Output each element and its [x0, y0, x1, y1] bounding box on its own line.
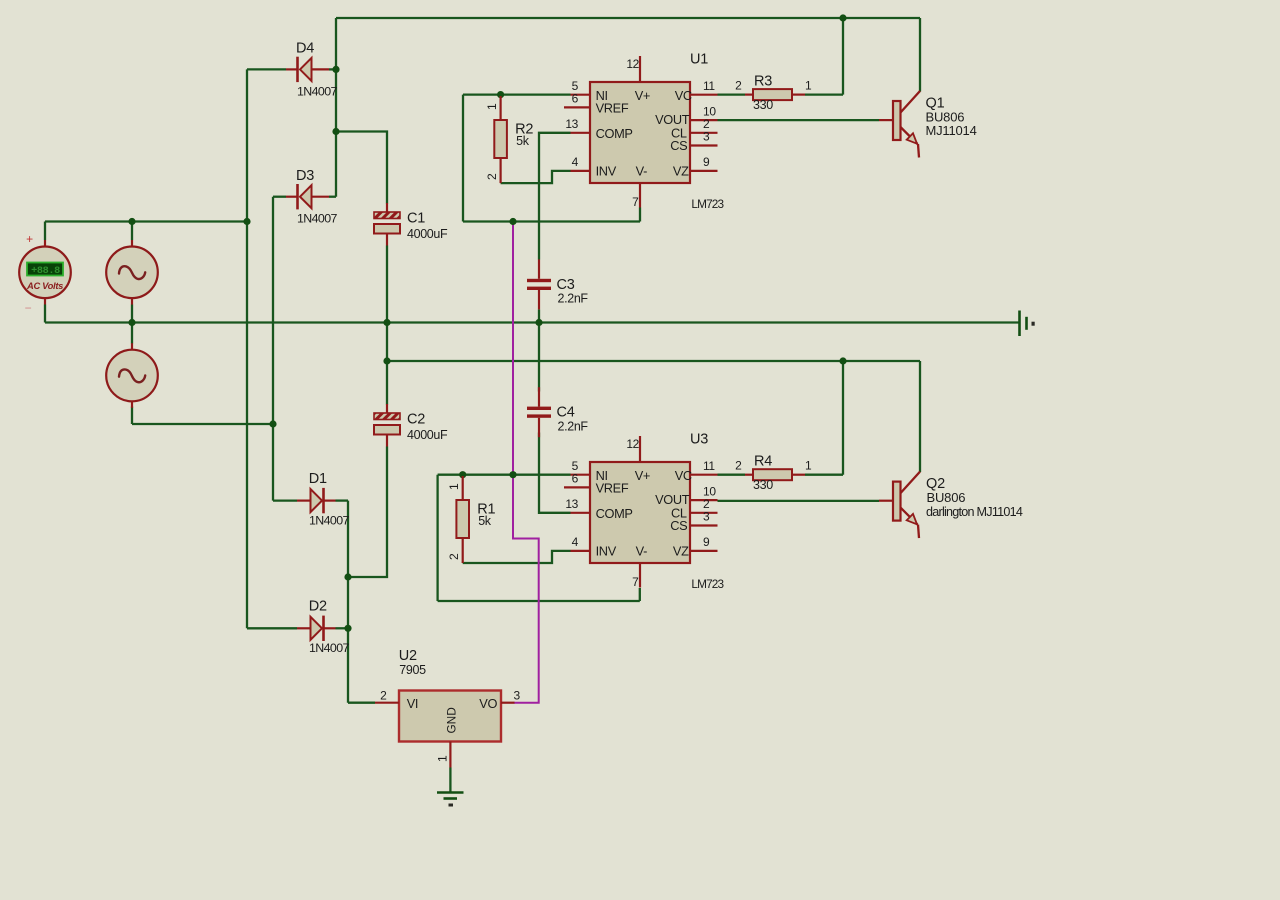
- capacitor C3 2.2nF: [527, 259, 588, 309]
- wire R4 riser to negative rail: [842, 361, 844, 475]
- wire C4 bottom to U3 COMP: [539, 433, 571, 513]
- U3 pin 6 (VREF): [564, 472, 590, 488]
- svg-text:6: 6: [572, 472, 579, 486]
- wire D4 anode lead: [247, 68, 286, 70]
- U2 pin 2 (VI): [375, 689, 399, 703]
- wire U3 NI row: [438, 474, 571, 476]
- wire R4 left lead: [718, 474, 746, 476]
- U1 pin 11 (VC): [690, 79, 718, 95]
- svg-text:BU806: BU806: [927, 490, 966, 505]
- svg-text:+: +: [26, 232, 33, 246]
- svg-text:V+: V+: [635, 88, 650, 103]
- wire C1 bottom to ground rail: [386, 246, 388, 323]
- svg-text:VZ: VZ: [673, 164, 689, 179]
- junction purple net at U3 NI: [509, 471, 516, 478]
- diode D2 1N4007: [297, 599, 350, 656]
- svg-text:2: 2: [485, 173, 499, 180]
- wire U3 V- riser: [639, 588, 641, 601]
- wire R4 right to riser: [805, 474, 843, 476]
- svg-text:2.2nF: 2.2nF: [558, 420, 589, 434]
- svg-text:2: 2: [380, 689, 387, 703]
- junction C2 bottom at cathode bus: [344, 573, 351, 580]
- svg-text:GND: GND: [445, 707, 459, 733]
- ground symbol right (power ground): [1020, 311, 1035, 337]
- wire AC2 bottom riser: [131, 407, 133, 425]
- capacitor C1 4000uF: [374, 203, 448, 246]
- svg-text:U3: U3: [690, 431, 708, 447]
- svg-text:U2: U2: [399, 648, 417, 664]
- U3 pin 11 (VC): [690, 459, 718, 475]
- svg-text:2: 2: [447, 553, 461, 560]
- svg-text:12: 12: [626, 57, 639, 71]
- U1 pin 10 (VOUT): [690, 104, 718, 120]
- wire voltmeter/AC1 top rail y=221.5: [45, 220, 247, 222]
- wire voltmeter minus riser: [44, 305, 46, 323]
- wire AC2 to D1/D3 bus y=424: [132, 423, 273, 425]
- svg-text:1N4007: 1N4007: [309, 514, 350, 528]
- wire AC1 top riser: [131, 222, 133, 241]
- svg-text:VZ: VZ: [673, 544, 689, 559]
- svg-text:D2: D2: [309, 599, 327, 615]
- svg-text:CS: CS: [670, 518, 687, 533]
- wire C2 bottom lead: [348, 447, 387, 578]
- svg-text:V-: V-: [636, 164, 647, 179]
- svg-text:3: 3: [514, 689, 521, 703]
- U3 pin 4 (INV): [571, 535, 591, 551]
- svg-text:INV: INV: [596, 544, 617, 559]
- wire AC2 top riser: [131, 323, 133, 344]
- wire C2 top lead: [386, 361, 388, 405]
- U2 reference label: [399, 648, 426, 677]
- svg-text:2: 2: [735, 459, 742, 473]
- svg-text:1: 1: [447, 483, 461, 490]
- resistor R2 5k: [485, 96, 533, 183]
- U3 pin 9 (VZ): [690, 535, 718, 551]
- junction R4 riser at negative rail: [839, 357, 846, 364]
- wire Q2 collector riser: [919, 361, 921, 472]
- svg-text:LM723: LM723: [691, 197, 724, 211]
- svg-text:1N4007: 1N4007: [297, 84, 338, 98]
- junction C2 top at negative rail: [383, 357, 390, 364]
- wire R3 pin1 riser to top rail: [842, 18, 844, 95]
- U3 pin 5 (NI): [571, 459, 591, 475]
- junction top rail / R3: [839, 14, 846, 21]
- svg-text:VI: VI: [407, 696, 418, 711]
- svg-text:1: 1: [805, 459, 812, 473]
- U1 pin 9 (VZ): [690, 155, 718, 171]
- wire C1-C2 link x=387: [386, 323, 388, 362]
- svg-text:MJ11014: MJ11014: [926, 123, 977, 138]
- diode D3 1N4007: [286, 168, 338, 226]
- svg-text:R3: R3: [754, 74, 772, 90]
- wire U1 COMP to C3: [539, 133, 571, 260]
- wire C3 bottom to ground rail: [538, 310, 540, 323]
- transistor Q2 BU806: [879, 472, 1023, 538]
- U3 pin 13 (COMP): [565, 497, 590, 513]
- svg-text:1: 1: [436, 755, 450, 762]
- svg-text:12: 12: [626, 437, 639, 451]
- U1 pin 13 (COMP): [565, 117, 590, 133]
- U1 pin 4 (INV): [571, 155, 591, 171]
- svg-text:6: 6: [572, 92, 579, 106]
- svg-text:9: 9: [703, 535, 710, 549]
- svg-text:C4: C4: [557, 405, 575, 421]
- junction transformer tap to anode bus: [243, 218, 250, 225]
- wire D2 anode lead: [247, 627, 297, 629]
- wire voltmeter plus riser: [44, 222, 46, 241]
- junction AC2 to anode bus: [269, 420, 276, 427]
- svg-text:4: 4: [572, 155, 579, 169]
- regulator IC U3 LM723 body: [590, 462, 692, 563]
- svg-text:VREF: VREF: [596, 480, 629, 495]
- wire U1 bottom loop: [463, 220, 640, 222]
- wire C1 top branch: [336, 132, 387, 204]
- svg-text:4000uF: 4000uF: [407, 428, 448, 442]
- AC source V2 (lower transformer winding): [106, 343, 158, 408]
- wire ground rail y=322.5: [45, 321, 1020, 323]
- wire D1 anode lead: [273, 499, 297, 501]
- junction AC1 top: [128, 218, 135, 225]
- svg-text:11: 11: [703, 459, 715, 473]
- U1 pin 6 (VREF): [564, 92, 590, 108]
- svg-text:2: 2: [735, 79, 742, 93]
- wire C3/C4 link x=539: [538, 323, 540, 392]
- wire vertical D4/D3 cathode bus x=336: [335, 18, 337, 197]
- wire U2 GND to ground symbol: [449, 768, 451, 792]
- svg-text:7: 7: [632, 195, 639, 209]
- U2 pin 1 (GND): [436, 742, 451, 768]
- wire D3 cathode to bus: [329, 196, 336, 198]
- svg-text:VO: VO: [479, 696, 497, 711]
- svg-text:D3: D3: [296, 168, 314, 184]
- svg-text:11: 11: [703, 79, 715, 93]
- svg-text:330: 330: [753, 478, 773, 492]
- junction D2 cathode: [344, 625, 351, 632]
- resistor R3 330: [735, 74, 812, 113]
- svg-text:4: 4: [572, 535, 579, 549]
- U1 pin 3 (CS): [690, 130, 718, 146]
- svg-text:7905: 7905: [399, 663, 426, 677]
- wire U1 left loop down: [462, 95, 464, 222]
- U1 pin 12 (V+): [626, 56, 640, 82]
- capacitor C2 4000uF: [374, 404, 448, 447]
- wire vertical anode bus x=247 (AC1 hot to D4/D2): [246, 69, 248, 628]
- U1 pin 5 (NI): [571, 79, 591, 95]
- wire U3 VOUT to Q2 base: [718, 500, 880, 502]
- U1 pin 7 (V-): [632, 183, 640, 209]
- svg-text:AC Volts: AC Volts: [26, 280, 63, 291]
- svg-text:VC: VC: [675, 468, 692, 483]
- junction purple net at U1 loop: [509, 218, 516, 225]
- junction C1 bottom at ground rail: [383, 319, 390, 326]
- junction C1 top branch: [332, 128, 339, 135]
- wire U1 VOUT to Q1 base: [718, 119, 880, 121]
- wire D2 cathode to bus: [336, 627, 349, 629]
- wire R1 pin2 jog to U3 INV: [463, 551, 571, 563]
- svg-text:U1: U1: [690, 51, 708, 67]
- svg-text:5k: 5k: [516, 134, 530, 148]
- svg-text:−: −: [25, 301, 32, 315]
- svg-text:1: 1: [485, 103, 499, 110]
- U1 pin 2 (CL): [690, 117, 718, 133]
- diode D4 1N4007: [286, 41, 338, 99]
- U3 pin 10 (VOUT): [690, 484, 718, 500]
- wire AC1 bottom riser: [131, 305, 133, 323]
- ground symbol below U2: [437, 793, 464, 807]
- svg-text:1N4007: 1N4007: [297, 212, 338, 226]
- svg-text:INV: INV: [596, 164, 617, 179]
- svg-text:C2: C2: [407, 412, 425, 428]
- svg-text:9: 9: [703, 155, 710, 169]
- U1 reference label: [690, 51, 725, 210]
- regulator U2 7905 body: [399, 691, 501, 742]
- wire R3 left lead: [718, 93, 746, 95]
- AC source V1 (upper transformer winding): [106, 240, 158, 305]
- U3 reference label: [690, 431, 725, 590]
- wire R3 right to riser: [805, 93, 843, 95]
- transistor Q1 BU806: [879, 91, 977, 158]
- wire Q1 collector riser: [919, 18, 921, 92]
- svg-text:darlington MJ11014: darlington MJ11014: [926, 505, 1023, 519]
- svg-text:D1: D1: [309, 471, 327, 487]
- svg-text:2.2nF: 2.2nF: [558, 292, 589, 306]
- junction AC1/AC2 centre tap: [128, 319, 135, 326]
- svg-text:3: 3: [703, 130, 710, 144]
- svg-text:C3: C3: [557, 277, 575, 293]
- diode D1 1N4007: [297, 471, 350, 528]
- wire R2 pin2 jog to U1 INV: [501, 171, 571, 183]
- svg-text:D4: D4: [296, 41, 314, 57]
- svg-text:CS: CS: [670, 138, 687, 153]
- U2 pin 3 (VO): [501, 689, 521, 703]
- U3 pin 2 (CL): [690, 497, 718, 513]
- AC voltmeter instrument: [19, 232, 71, 315]
- wire U1 V- riser: [639, 208, 641, 222]
- svg-text:COMP: COMP: [596, 126, 633, 141]
- wire negative rail y=361: [387, 360, 920, 362]
- svg-text:13: 13: [565, 497, 578, 511]
- wire D3 anode lead: [273, 196, 286, 198]
- svg-text:13: 13: [565, 117, 578, 131]
- wire U2 VI lead: [348, 702, 375, 704]
- wire vertical anode bus x=273 (AC2 hot to D3/D1): [272, 197, 274, 501]
- capacitor C4 2.2nF: [527, 387, 588, 437]
- junction U1 NI / R2: [497, 91, 504, 98]
- svg-text:1: 1: [805, 79, 812, 93]
- svg-text:4000uF: 4000uF: [407, 227, 448, 241]
- U3 pin 7 (V-): [632, 563, 640, 589]
- wire purple feedback net (U1 loop to U3 NI to U2 VO): [513, 222, 539, 703]
- junction C3 bottom at ground rail: [535, 319, 542, 326]
- resistor R4 330: [735, 454, 812, 493]
- U3 pin 3 (CS): [690, 510, 718, 526]
- wire top positive rail: [336, 17, 920, 19]
- wire D1 cathode corner: [336, 499, 349, 501]
- svg-text:330: 330: [753, 98, 773, 112]
- wire D4 cathode to bus: [329, 68, 336, 70]
- junction U3 NI / R1: [459, 471, 466, 478]
- junction D4 cathode / C1 bus: [332, 66, 339, 73]
- svg-text:COMP: COMP: [596, 506, 633, 521]
- U3 pin 12 (V+): [626, 436, 640, 462]
- svg-text:VC: VC: [675, 88, 692, 103]
- wire cathode bus x=348 (D1/D2 to U2 VI): [347, 501, 349, 703]
- wire U1 NI row: [463, 93, 571, 95]
- svg-text:5k: 5k: [478, 514, 492, 528]
- svg-text:3: 3: [703, 510, 710, 524]
- svg-text:+88.8: +88.8: [31, 266, 60, 277]
- wire U3 left loop down: [436, 475, 438, 601]
- svg-text:V+: V+: [635, 468, 650, 483]
- wire U3 bottom loop: [438, 600, 640, 602]
- svg-text:VREF: VREF: [596, 100, 629, 115]
- svg-text:1N4007: 1N4007: [309, 641, 350, 655]
- svg-text:R4: R4: [754, 454, 772, 470]
- svg-text:7: 7: [632, 575, 639, 589]
- svg-text:LM723: LM723: [691, 577, 724, 591]
- regulator IC U1 LM723 body: [590, 82, 692, 183]
- svg-text:C1: C1: [407, 211, 425, 227]
- svg-text:V-: V-: [636, 544, 647, 559]
- resistor R1 5k: [447, 476, 495, 563]
